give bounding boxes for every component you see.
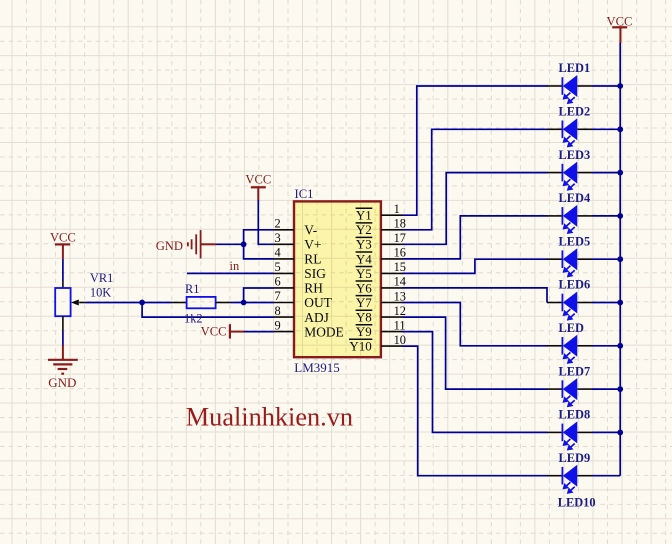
svg-text:10K: 10K: [90, 286, 111, 300]
svg-text:3: 3: [274, 231, 280, 245]
wire pin 10 to LED row 10: [403, 346, 548, 476]
wire pin 16 to LED row 4: [403, 216, 548, 259]
wire LED to VCC rail: [592, 128, 620, 130]
junction node A (wiper/R1/ADJ): [139, 300, 145, 306]
wire pin 1 to LED row 1: [403, 86, 548, 215]
wire LED to VCC rail: [592, 85, 620, 87]
svg-text:7: 7: [274, 289, 280, 303]
svg-text:VCC: VCC: [201, 325, 227, 339]
pin 1 (Y1): [356, 202, 403, 223]
svg-text:LED3: LED3: [559, 148, 591, 162]
junction on VCC rail: [617, 83, 623, 89]
svg-text:R1: R1: [185, 282, 199, 296]
pin 7 (OUT): [274, 289, 332, 310]
wire R1 to node B: [231, 302, 244, 304]
wire LED to VCC rail: [592, 388, 620, 390]
wire pin 18 to LED row 2: [403, 129, 548, 230]
svg-text:Y7: Y7: [356, 295, 372, 310]
svg-text:12: 12: [394, 304, 406, 318]
wire LED to VCC rail: [592, 258, 620, 260]
wire VR1 wiper to node A: [85, 302, 142, 304]
svg-text:Y2: Y2: [356, 222, 372, 237]
wire GND to node C: [216, 243, 244, 245]
wire node A down to pin 8 ADJ: [142, 303, 274, 318]
wire LED to VCC rail: [592, 345, 620, 347]
svg-text:VCC: VCC: [245, 172, 271, 186]
svg-text:16: 16: [394, 246, 406, 260]
svg-text:LED2: LED2: [559, 105, 591, 119]
LED D3: [547, 162, 592, 191]
svg-text:15: 15: [394, 260, 406, 274]
svg-text:Y5: Y5: [356, 266, 372, 281]
wire LED to VCC rail: [592, 172, 620, 174]
pin 12 (Y8): [356, 304, 406, 325]
svg-text:11: 11: [394, 318, 406, 332]
ground GND (below VR1): [48, 345, 78, 390]
pin 5 (SIG): [274, 260, 327, 281]
LED D5: [547, 248, 592, 277]
LED D4: [547, 205, 592, 234]
wire LED to VCC rail: [592, 215, 620, 217]
svg-text:17: 17: [394, 231, 406, 245]
power VCC (top left): [50, 230, 76, 258]
svg-text:IC1: IC1: [295, 187, 314, 201]
junction on VCC rail: [617, 170, 623, 176]
svg-text:RH: RH: [304, 281, 323, 296]
pin 3 (V+): [274, 231, 322, 252]
LED D2: [547, 118, 592, 147]
svg-text:2: 2: [274, 217, 280, 231]
wire pin 14 to LED row 6: [403, 288, 548, 303]
wire LED to VCC rail: [592, 302, 620, 304]
svg-text:in: in: [230, 259, 240, 273]
LED D1: [547, 75, 592, 104]
svg-text:4: 4: [274, 246, 280, 260]
pin 6 (RH): [274, 275, 324, 296]
pin 8 (ADJ): [274, 304, 329, 325]
svg-text:13: 13: [394, 289, 406, 303]
svg-text:V-: V-: [304, 223, 317, 238]
pin 15 (Y5): [356, 260, 406, 281]
svg-text:10: 10: [394, 333, 406, 347]
junction node B (R1/RH/OUT): [241, 300, 247, 306]
junction on VCC rail: [617, 256, 623, 262]
svg-text:1: 1: [394, 202, 400, 216]
svg-text:LED9: LED9: [559, 451, 591, 465]
junction on VCC rail: [617, 386, 623, 392]
svg-text:LED8: LED8: [559, 408, 591, 422]
wire pin 11 to LED row 9: [403, 332, 548, 433]
svg-text:8: 8: [274, 304, 280, 318]
svg-text:LED10: LED10: [558, 496, 596, 510]
pin 9 (MODE): [274, 318, 344, 339]
wire VR1 bottom to ground: [62, 331, 64, 345]
power VCC (LED rail, top right): [607, 14, 633, 43]
wire node C to pin 2 V- and pin 4 RL: [244, 230, 274, 259]
wire VCC to VR1: [62, 259, 64, 281]
wire pin 17 to LED row 3: [403, 173, 548, 245]
LED D10: [547, 465, 592, 494]
svg-text:1k2: 1k2: [184, 312, 203, 326]
wire pin 15 to LED row 5: [403, 259, 548, 273]
pin 16 (Y4): [356, 246, 406, 267]
pin 18 (Y2): [356, 217, 406, 238]
svg-text:VCC: VCC: [50, 230, 76, 244]
junction on VCC rail: [617, 213, 623, 219]
resistor R1: [171, 297, 231, 308]
wire LED to VCC rail: [592, 431, 620, 433]
pin 2 (V-): [274, 217, 318, 238]
power VCC (above IC): [245, 172, 271, 200]
ground GND (near IC): [156, 230, 216, 258]
pin 14 (Y6): [356, 275, 406, 296]
junction on VCC rail: [617, 343, 623, 349]
wire pin 13 to LED row 7: [403, 303, 548, 346]
pin 10 (Y10): [349, 333, 406, 354]
pin 4 (RL): [274, 246, 322, 267]
svg-text:Mualinhkien.vn: Mualinhkien.vn: [186, 403, 353, 432]
svg-text:Y8: Y8: [356, 310, 372, 325]
junction on VCC rail: [617, 430, 623, 436]
LED D8: [547, 378, 592, 407]
svg-text:LED7: LED7: [559, 364, 591, 378]
wire VCC to pin 9 MODE: [244, 331, 274, 333]
svg-text:Y4: Y4: [356, 251, 372, 266]
wire LED to VCC rail: [592, 475, 620, 477]
svg-text:Y3: Y3: [356, 237, 372, 252]
svg-text:LED6: LED6: [559, 278, 591, 292]
svg-text:VR1: VR1: [90, 271, 113, 285]
LED D6: [547, 292, 592, 321]
svg-text:ADJ: ADJ: [304, 310, 329, 325]
LED D9: [547, 421, 592, 450]
svg-text:Y9: Y9: [356, 324, 372, 339]
svg-text:Y10: Y10: [349, 339, 371, 354]
svg-text:V+: V+: [304, 237, 321, 252]
pin 13 (Y7): [356, 289, 406, 310]
junction on VCC rail: [617, 300, 623, 306]
svg-text:6: 6: [274, 275, 280, 289]
wire node B to pin 6 RH and pin 7 OUT: [244, 288, 274, 303]
svg-text:5: 5: [274, 260, 280, 274]
junction on VCC rail: [617, 126, 623, 132]
potentiometer VR1: [55, 281, 85, 331]
svg-text:RL: RL: [304, 252, 321, 267]
svg-text:GND: GND: [156, 239, 183, 253]
wire pin 12 to LED row 8: [403, 317, 548, 389]
svg-text:LED1: LED1: [559, 61, 591, 75]
wire net in to pin 5 SIG: [187, 272, 274, 274]
svg-text:LED5: LED5: [559, 234, 591, 248]
svg-text:LED4: LED4: [559, 191, 591, 205]
svg-text:Y6: Y6: [356, 280, 372, 295]
power VCC (at pin 9 MODE): [201, 324, 245, 338]
pin 17 (Y3): [356, 231, 406, 252]
svg-text:18: 18: [394, 217, 406, 231]
wire VCC rail: [619, 43, 621, 476]
svg-text:GND: GND: [48, 375, 76, 390]
pin 11 (Y9): [356, 318, 406, 339]
junction node C (GND/V-/RL): [241, 241, 247, 247]
LED D7: [547, 335, 592, 364]
wire node A to R1: [142, 302, 171, 304]
svg-text:14: 14: [394, 275, 406, 289]
svg-text:MODE: MODE: [304, 324, 343, 339]
svg-text:9: 9: [274, 318, 280, 332]
IC IC1 LM3915 body: [294, 201, 381, 357]
svg-text:OUT: OUT: [304, 295, 332, 310]
svg-text:LED: LED: [559, 321, 585, 335]
wire VCC to pin 3 V+: [258, 200, 274, 244]
svg-text:SIG: SIG: [304, 266, 326, 281]
svg-text:LM3915: LM3915: [294, 360, 340, 375]
svg-text:Y1: Y1: [356, 208, 372, 223]
